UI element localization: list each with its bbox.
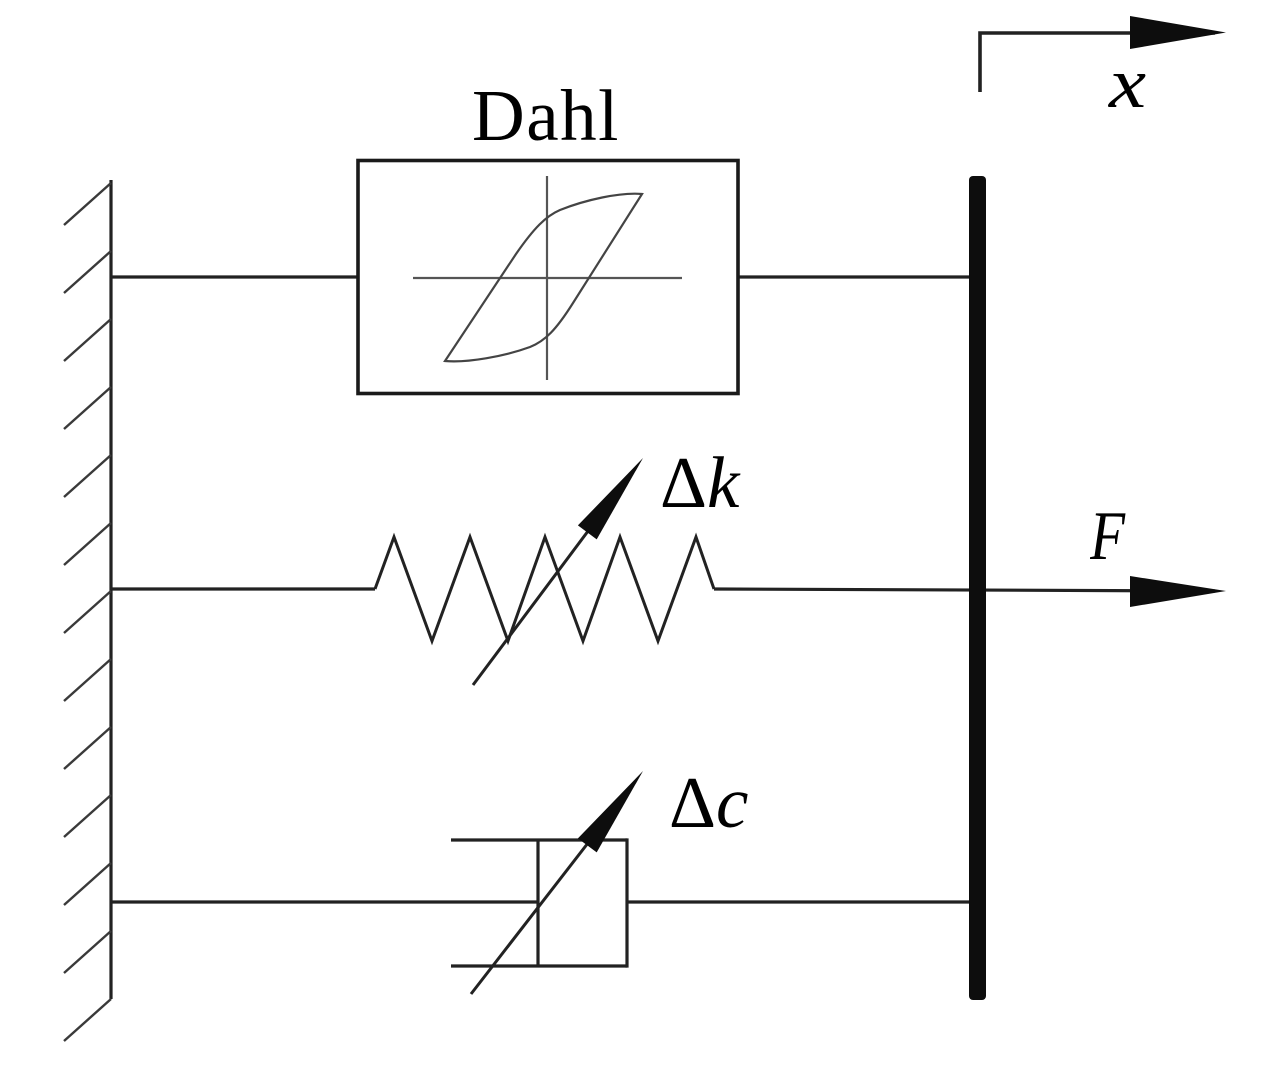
Dahl element box [358,161,738,394]
wire wall to Dahl box [111,275,358,278]
wire damper to bar [627,900,970,903]
label Delta-c [669,766,748,839]
wire wall to damper piston [111,900,538,903]
x coordinate marker: vertical tick [980,33,1215,92]
rigid bar (mass plate) [969,176,986,1000]
label Delta-k [660,446,739,519]
wire wall to spring [111,587,375,590]
label F [1090,502,1141,566]
wire spring to F arrow [714,589,1215,591]
wire Dahl box to bar [738,275,970,278]
hysteresis loop [445,194,642,362]
force arrowhead F [1130,576,1226,607]
label x [1109,47,1146,119]
variable-spring arrow shaft [473,499,612,685]
wall hatching [64,183,111,1041]
x coordinate arrowhead [1130,16,1226,49]
spring (zigzag) [375,537,714,641]
variable-damper arrow shaft [471,812,612,994]
fixed wall [109,180,112,999]
damper cylinder bottom [451,964,627,967]
variable-spring arrowhead [578,458,643,539]
variable-damper arrowhead [578,771,643,852]
damper cylinder top [451,838,627,841]
damper piston [536,840,539,966]
damper cylinder right wall [625,838,628,967]
label Dahl [472,79,620,152]
hysteresis horizontal axis [413,277,682,279]
hysteresis vertical axis [546,176,548,380]
